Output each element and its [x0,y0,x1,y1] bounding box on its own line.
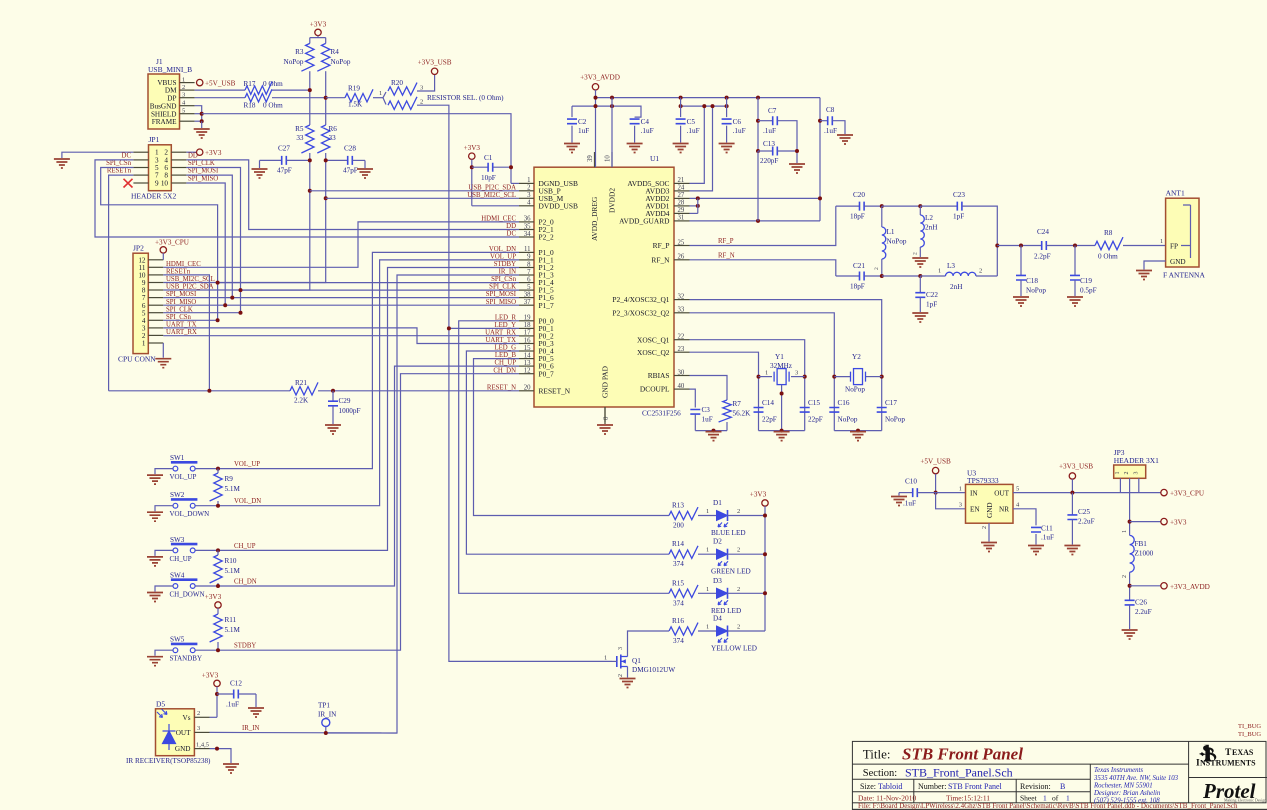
power port +3V3 [1161,518,1167,524]
svg-text:P2_2: P2_2 [539,233,555,242]
svg-text:.1uF: .1uF [903,500,916,508]
svg-text:1uF: 1uF [578,127,589,135]
capacitor C27 47pF [260,159,282,161]
capacitor C11 .1uF [1031,527,1041,532]
junction SW1/R9 [216,467,220,471]
svg-text:TPS79333: TPS79333 [967,476,999,485]
svg-text:10pF: 10pF [481,174,496,182]
svg-text:D3: D3 [713,577,722,585]
wire JP3 pin3 down to out rail [1138,478,1140,492]
svg-text:C11: C11 [1041,525,1053,533]
svg-text:2: 2 [737,624,740,631]
LED D2 GREEN LED [717,549,728,559]
resistor R4 NoPop [317,43,330,71]
svg-text:.1uF: .1uF [824,127,837,135]
junction SW2/R9 [216,504,220,508]
svg-text:20: 20 [524,385,531,392]
wire J1 DM to R17 [195,89,245,91]
svg-text:VOL_DN: VOL_DN [234,498,261,505]
svg-text:1: 1 [527,177,530,184]
svg-text:Z1000: Z1000 [1135,550,1154,558]
svg-text:USB_MINI_B: USB_MINI_B [148,65,192,74]
svg-text:29: 29 [678,207,685,214]
junction C1 right [509,165,513,169]
resistor R20 lower branch [383,98,386,105]
svg-text:1: 1 [182,77,185,84]
switch SW2 VOL_DOWN [171,498,198,501]
svg-text:2: 2 [913,252,919,255]
svg-text:+3V3_AVDD: +3V3_AVDD [1170,583,1210,591]
U1 pin 5 P1_5 [519,289,534,291]
svg-text:DD: DD [188,153,198,160]
svg-text:D5: D5 [156,699,165,708]
svg-text:AVDD_GUARD: AVDD_GUARD [619,217,670,226]
svg-text:11: 11 [524,246,531,253]
svg-text:10: 10 [605,155,612,162]
wire top line to C23 [882,205,921,207]
svg-text:RBIAS: RBIAS [648,371,670,380]
U1 pin 26 RF_N [674,259,690,261]
svg-text:Y2: Y2 [852,353,861,361]
wire GND PAD to ground [604,407,606,424]
resistor R5 33 [301,125,314,153]
capacitor C1 10pF [472,166,488,168]
wire to +3V3_AVDD port [1130,585,1161,587]
capacitor C28 47pF [326,159,348,161]
ground at C2 [564,144,580,153]
antenna ANT1 F ANTENNA [1166,198,1199,267]
svg-text:DP: DP [167,94,176,102]
svg-text:C8: C8 [826,106,835,114]
svg-text:47pF: 47pF [277,167,292,175]
svg-text:C10: C10 [905,478,917,486]
junction USB_M branch [324,196,328,200]
photodiode symbol inside D5 [163,731,176,744]
svg-text:+3V3: +3V3 [205,149,222,157]
svg-text:DMG1012UW: DMG1012UW [632,666,675,674]
U1 pin 32 P2_4/XOSC32_Q1 [674,299,690,301]
svg-text:Q1: Q1 [632,657,641,665]
ground at JP2 pin1 [155,359,171,368]
svg-text:USB_PI2C_SDA: USB_PI2C_SDA [166,284,214,291]
svg-text:EXAS: EXAS [1232,748,1254,757]
svg-text:22: 22 [678,334,685,341]
wire USB_P row to U1 pin2 [310,190,519,192]
svg-text:C24: C24 [1037,228,1049,236]
svg-text:33: 33 [296,134,304,142]
svg-text:CC2531F256: CC2531F256 [642,410,681,418]
wire R17 to R3 column [272,89,310,91]
svg-text:DC: DC [507,231,517,238]
svg-text:Making Electronic Design Easy: Making Electronic Design Easy [1224,797,1267,802]
svg-text:Title:: Title: [863,747,891,762]
svg-text:TI_BUG: TI_BUG [1238,723,1261,730]
wire C10 left to ground [898,493,900,496]
svg-text:P2_3/XOSC32_Q2: P2_3/XOSC32_Q2 [612,308,669,317]
svg-text:Texas Instruments: Texas Instruments [1094,767,1143,774]
svg-text:VOL_DOWN: VOL_DOWN [170,510,210,518]
svg-text:Section:: Section: [863,768,897,779]
resistor R3 NoPop [301,43,314,71]
svg-text:STB Front Panel: STB Front Panel [902,745,1023,764]
svg-text:Revision:: Revision: [1020,782,1051,791]
svg-text:18pF: 18pF [850,283,865,291]
capacitor C7 .1uF [757,98,759,151]
svg-text:USB_MI2C_SCL: USB_MI2C_SCL [166,276,215,283]
svg-text:36: 36 [524,216,531,223]
svg-text:12: 12 [524,368,531,375]
svg-text:FRAME: FRAME [152,118,177,126]
svg-text:0.5pF: 0.5pF [1080,287,1097,295]
U1 pin 14 P0_5 [519,358,534,360]
wire JP1 DD down to U1 DD row [186,160,519,230]
svg-text:18pF: 18pF [850,213,865,221]
wire Q1 source to ground [627,667,629,678]
svg-text:CH_UP: CH_UP [170,555,192,563]
svg-text:BusGND: BusGND [150,102,177,110]
wire AVDD3 up to rail2 [690,106,713,191]
U1 pin 39 AVDD_DREG top [594,152,596,167]
wire UART_TX JP2 to U1 jog [163,328,519,344]
ground at SW5 [147,657,163,666]
junction +3V3 row [1128,520,1132,524]
svg-text:.1uF: .1uF [733,127,746,135]
ground at SW1 [147,475,163,484]
U1 pin 25 RF_P [674,245,690,247]
svg-text:IR_IN: IR_IN [318,711,337,719]
rail1 +3V3_AVDD horizontal [596,97,821,99]
svg-text:3: 3 [618,647,624,650]
svg-text:4: 4 [527,200,531,207]
IC U1 CC2531F256 [534,167,674,407]
svg-text:JP1: JP1 [149,135,160,144]
ground at C12 [248,708,264,717]
ground at C22 [912,313,928,322]
svg-text:L2: L2 [925,214,933,222]
svg-text:R14: R14 [672,540,684,548]
U1 pin 40 DCOUPL [674,388,690,390]
svg-text:D4: D4 [713,615,722,623]
wire SHIELD stub join [195,113,202,115]
svg-text:10: 10 [161,180,169,188]
wire +5V to U3 IN [936,492,966,494]
wire STDBY net [218,268,519,551]
U1 pin 13 P0_6 [519,365,534,367]
capacitor C23 1pF [957,202,962,211]
wire RF_N to matching network [690,260,836,276]
svg-text:2: 2 [737,547,740,554]
svg-text:C6: C6 [733,118,742,126]
svg-text:STANDBY: STANDBY [170,655,203,663]
power +5V_USB at J1 pin1 [197,79,203,85]
svg-text:VOL_UP: VOL_UP [234,461,260,468]
svg-text:.1uF: .1uF [641,127,654,135]
crystal Y1 32MHz [757,375,761,379]
capacitor C5 .1uF [680,98,682,118]
svg-text:1: 1 [706,586,709,593]
svg-text:RF_P: RF_P [718,238,734,245]
svg-text:NoPop: NoPop [284,58,304,66]
switch SW4 CH_DOWN [171,578,198,581]
U1 pin 36 P2_0 [519,221,534,223]
wire JP1 pin1 to ground [62,152,133,158]
IR receiver D5 TSOP85238 [156,709,195,756]
svg-text:+5V_USB: +5V_USB [920,458,951,466]
capacitor C22 1pF [919,276,921,293]
svg-text:NoPop: NoPop [885,416,905,424]
svg-text:2: 2 [527,185,531,192]
svg-text:2: 2 [197,710,200,717]
junction LED_Y [447,326,451,330]
svg-text:C7: C7 [768,107,777,115]
resistor R13 200 [669,507,698,520]
C3/R7 ground rail [695,430,727,432]
svg-text:SPI_MOSI: SPI_MOSI [188,168,219,175]
U1 GND PAD bottom pin 0 [604,407,606,422]
junction +3V3_AVDD row [1128,584,1132,588]
svg-text:SW4: SW4 [170,572,185,580]
svg-text:C5: C5 [687,118,696,126]
wire CH_DN net [218,374,519,651]
wire SHIELD net long run to C1 right [202,114,511,184]
svg-text:R20: R20 [391,79,403,87]
svg-text:C29: C29 [339,397,351,405]
resistor R16 374 [669,623,698,636]
svg-text:2: 2 [618,674,624,677]
resistor R19 1.5K [345,89,373,102]
svg-text:Tabloid: Tabloid [878,782,902,791]
svg-text:+5V_USB: +5V_USB [205,80,236,88]
svg-text:(507) 529-1555 ext. 108: (507) 529-1555 ext. 108 [1094,798,1160,805]
wire SPI_CSn JP2 row [163,319,217,321]
svg-text:2.2uF: 2.2uF [1078,518,1095,526]
ground at C25 [1064,546,1080,555]
wire XOSC_Q2 to Y1 left [690,352,759,430]
wire JP1 SPI_MOSI down [186,175,232,298]
svg-text:TI_BUG: TI_BUG [1238,731,1261,738]
wire HDMI_CEC JP2 to U1 [163,222,519,267]
svg-text:IN: IN [970,489,978,497]
svg-text:C21: C21 [853,262,865,270]
svg-text:6: 6 [527,276,531,283]
inductor L3 2nH [920,275,945,277]
wire U3 NR to C11 [1013,509,1036,526]
svg-text:T: T [1225,748,1232,758]
junction C27/R5 [308,158,312,162]
svg-text:SW2: SW2 [170,491,185,499]
svg-text:NR: NR [999,506,1009,514]
svg-text:3: 3 [182,92,185,99]
power +3V3 at JP1 [197,149,203,155]
svg-text:22pF: 22pF [808,416,823,424]
svg-text:L3: L3 [947,262,955,270]
svg-text:R9: R9 [225,475,234,483]
svg-text:JP2: JP2 [133,244,144,253]
svg-text:DCOUPL: DCOUPL [640,385,670,394]
svg-text:+3V3: +3V3 [205,593,222,601]
svg-text:R16: R16 [672,617,684,625]
U1 pin 30 RBIAS [674,375,690,377]
svg-text:2: 2 [874,267,880,270]
U1 pin 3 USB_M [519,197,534,199]
capacitor C2 1uF [571,106,573,117]
svg-text:+3V3_USB: +3V3_USB [1059,463,1093,471]
svg-text:GND PAD: GND PAD [601,365,610,398]
U1 pin 17 P0_2 [519,335,534,337]
power port +3V3_CPU [1161,489,1167,495]
svg-text:HEADER 3X1: HEADER 3X1 [1114,456,1159,465]
connector J1 USB_MINI_B [148,74,180,129]
wire LED_Y net to Q1 gate [449,327,519,329]
svg-text:C23: C23 [953,191,965,199]
svg-text:SW5: SW5 [170,636,185,644]
sheet bottom border [852,809,1267,810]
svg-text:P0_7: P0_7 [539,369,555,378]
svg-text:R6: R6 [329,125,338,133]
svg-text:+3V3_CPU: +3V3_CPU [155,238,190,246]
svg-text:STB_Front_Panel.Sch: STB_Front_Panel.Sch [905,766,1013,780]
wire ANT1 GND to ground [1144,261,1166,270]
svg-text:1: 1 [379,90,382,97]
U1 pin 11 P1_0 [519,251,534,253]
svg-text:38: 38 [524,291,531,298]
ground at U1 GND PAD [597,425,613,434]
svg-text:31: 31 [678,215,685,222]
resistor R21 2.2K [290,382,318,395]
antenna trace inside ANT1 [1181,205,1191,258]
svg-text:Y1: Y1 [775,353,784,361]
svg-text:1: 1 [938,268,941,275]
U1 pin 27 AVDD2 [674,197,690,199]
svg-text:GREEN LED: GREEN LED [711,568,751,576]
svg-text:R3: R3 [295,48,304,56]
capacitor C19 0.5pF [1074,246,1076,276]
wire JP2 pin1 to ground [162,343,164,358]
svg-text:2.2K: 2.2K [294,397,309,405]
svg-text:TP1: TP1 [318,702,330,710]
junction SPI_CSn [216,318,220,322]
svg-text:1: 1 [1160,238,1163,245]
svg-text:1: 1 [142,340,146,348]
svg-text:2: 2 [182,84,185,91]
junction on FRAME row [200,119,204,123]
svg-text:32: 32 [678,293,685,300]
TI logo [1196,745,1256,769]
wire SPI_MOSI JP2 to U1 [163,297,519,299]
U1 pin 4 DVDD_USB [519,205,534,207]
wire XOSC32_Q1 to Y2 right [690,300,882,431]
resistor R20 upper branch [383,92,386,98]
svg-text:Rochester, MN 55901: Rochester, MN 55901 [1093,782,1153,789]
svg-text:R21: R21 [295,379,307,387]
LED D3 RED LED [717,588,728,598]
wire to +3V3 port [1130,521,1161,523]
ground at C26 [1122,630,1138,639]
wire J1 DP to R18 [195,97,245,99]
svg-text:2.2pF: 2.2pF [1034,253,1051,261]
U1 pin 33 P2_3/XOSC32_Q2 [674,312,690,314]
svg-text:CH_UP: CH_UP [234,543,256,550]
svg-text:P1_7: P1_7 [539,301,555,310]
wire SPI_CSn branch to U1 [218,282,519,284]
svg-text:.1uF: .1uF [763,127,776,135]
svg-text:C14: C14 [762,399,774,407]
svg-text:STDBY: STDBY [234,643,256,650]
svg-text:.1uF: .1uF [226,701,239,709]
svg-text:32MHz: 32MHz [770,362,792,370]
ground at C11 [1028,546,1044,555]
wire FRAME down to ground [201,121,203,128]
ground at SW3 [147,557,163,566]
wire SPI_CLK JP2 row [163,312,240,314]
svg-text:+3V3: +3V3 [202,672,219,680]
wire R20 pin2 down long vertical (to LED_Y net) [417,105,449,328]
wire JP1 DC down to U1 DC row [95,160,519,237]
svg-text:DVDD2: DVDD2 [608,188,617,213]
U1 pin 29 AVDD4 [674,212,690,214]
svg-text:2: 2 [1124,472,1130,475]
wire XOSC32_Q2 to Y2 left [690,313,835,431]
junction RESETn JP2 [207,389,211,393]
power port +3V3_AVDD [1161,583,1167,589]
svg-text:RF_N: RF_N [651,255,670,264]
U1 pin 12 P0_7 [519,373,534,375]
wire LED_R net [459,321,669,594]
svg-text:NoPop: NoPop [838,416,858,424]
U1 pin 6 P1_4 [519,282,534,284]
wire R21 to U1 RESET_N [318,390,519,392]
U1 pin 34 P2_2 [519,236,534,238]
svg-text:3: 3 [959,502,962,509]
svg-text:2.2uF: 2.2uF [1135,608,1152,616]
svg-text:C25: C25 [1078,508,1090,516]
svg-text:File: F:\Board Design\LPWirel: File: F:\Board Design\LPWireless\2.4Ghz\… [858,802,1238,810]
U1 pin 7 P1_3 [519,274,534,276]
svg-text:22pF: 22pF [762,416,777,424]
wire AVDD5_SOC up to rail2 [690,106,705,183]
wire DVDD_USB row [472,205,519,207]
ground at U3 [981,543,997,552]
svg-text:GND: GND [986,502,994,518]
wire DP junction to R19 [326,97,345,99]
wire JP1 SPI_MISO down [186,183,225,305]
ground at ANT1 [1136,271,1152,280]
svg-text:15: 15 [524,345,531,352]
svg-text:C19: C19 [1080,277,1092,285]
svg-text:C28: C28 [344,145,356,153]
ground at Q1 [620,679,636,688]
ground at C10 [891,497,907,506]
svg-text:C20: C20 [853,191,865,199]
ground at SW4 [147,593,163,602]
svg-text:BLUE LED: BLUE LED [711,529,746,537]
U1 pin 18 P0_1 [519,327,534,329]
switch SW3 CH_UP [171,543,198,546]
resistor R18 0 Ohm [245,89,272,102]
svg-text:1,4,5: 1,4,5 [196,741,209,748]
svg-text:1: 1 [765,370,768,377]
wire J1 BusGND to SHIELD/FRAME join [195,106,202,122]
svg-text:19: 19 [524,315,531,322]
svg-text:R10: R10 [225,557,237,565]
ferrite bead FB1 Z1000 [1130,535,1135,572]
svg-text:1pF: 1pF [953,213,964,221]
svg-text:L1: L1 [887,228,895,236]
svg-text:2: 2 [737,508,740,515]
svg-text:1000pF: 1000pF [339,407,361,415]
junction top line L1 [880,204,884,208]
junction SW4/R10 [216,584,220,588]
